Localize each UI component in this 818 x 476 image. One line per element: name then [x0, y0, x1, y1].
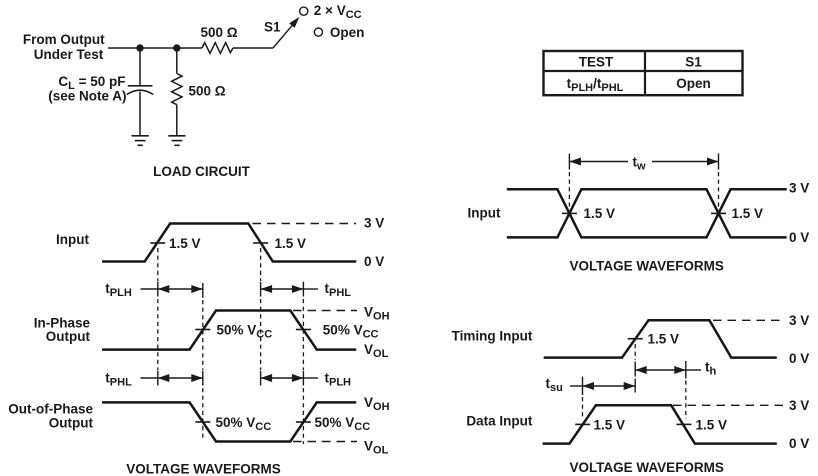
dashed vertical: in-phase rise crossing — [202, 283, 204, 298]
dashed 3V level line (timing input) — [713, 319, 783, 321]
dashed vertical: timing crossing down to tsu row — [634, 344, 636, 360]
svg-text:S1: S1 — [264, 20, 281, 35]
measurement arrow tw — [569, 161, 628, 163]
svg-text:From Output: From Output — [23, 32, 105, 47]
svg-text:0 V: 0 V — [789, 436, 809, 451]
svg-text:1.5 V: 1.5 V — [594, 418, 626, 433]
table: horizontal divider — [544, 70, 743, 72]
dashed vertical: th right bound down to data fall crossing — [685, 381, 687, 420]
dashed vertical: in-phase fall crossing — [302, 282, 304, 297]
lead line to tPHL arrows (row 2) — [141, 377, 158, 379]
tick: data input rising 1.5V crossing — [575, 423, 590, 425]
resistor R2 500 ohm (vertical): wire node B down — [176, 48, 178, 74]
junction node A — [136, 44, 143, 51]
capacitor CL curved bottom plate — [127, 90, 153, 94]
tick: input rising 1.5V crossing — [150, 242, 165, 244]
lead line from tPHL arrows — [303, 288, 318, 290]
dashed vertical: tw left bound — [568, 154, 570, 170]
resistor R1 500 ohm (series) zigzag — [202, 43, 233, 54]
svg-text:Out-of-Phase: Out-of-Phase — [8, 402, 93, 417]
svg-text:S1: S1 — [685, 54, 702, 69]
wire: resistor R2 down to ground — [176, 105, 178, 136]
switch S1 pole (diagonal arm) — [273, 23, 294, 48]
wire: from output label to node A — [108, 47, 140, 49]
svg-text:VOLTAGE WAVEFORMS: VOLTAGE WAVEFORMS — [569, 460, 724, 475]
measurement arrow tPLH (row 2) — [261, 377, 304, 379]
svg-text:3 V: 3 V — [364, 216, 384, 231]
svg-text:TEST: TEST — [579, 54, 614, 69]
dashed VOL level line (out-of-phase) — [293, 441, 357, 443]
dashed 3V level line (input) — [253, 223, 357, 225]
tick: input falling 1.5V crossing — [253, 242, 268, 244]
tick: in-phase rising 50% crossing — [195, 329, 210, 331]
lead line from th arrows — [686, 369, 701, 371]
waveform: out-of-phase output — [102, 402, 356, 441]
lead line to tsu arrows — [570, 385, 583, 387]
terminal: 2 x VCC contact circle — [300, 7, 308, 15]
waveform: input pulse line A (high-low-high) — [507, 189, 787, 237]
svg-text:1.5 V: 1.5 V — [169, 236, 201, 251]
dashed vertical: tw right bound — [718, 154, 720, 170]
svg-text:Under Test: Under Test — [34, 47, 104, 62]
svg-text:Data Input: Data Input — [466, 414, 533, 429]
svg-text:Output: Output — [46, 329, 91, 344]
dashed vertical: tsu left bound down to data rise crossing — [582, 397, 584, 419]
svg-text:VOLTAGE WAVEFORMS: VOLTAGE WAVEFORMS — [126, 462, 281, 476]
measurement arrow tPHL — [261, 288, 304, 290]
solid tick: tsu left bound — [582, 377, 584, 396]
svg-text:0 V: 0 V — [789, 351, 809, 366]
waveform: input pulse line B (low-high-low) — [507, 189, 787, 237]
measurement arrow tPHL (row 2) — [158, 377, 203, 379]
ground (below resistor R2) — [168, 136, 185, 146]
junction node B — [173, 44, 180, 51]
svg-text:(see Note A): (see Note A) — [48, 89, 126, 104]
ground (below capacitor CL) — [132, 136, 149, 146]
table: outer border — [544, 51, 743, 95]
dashed vertical: input rise crossing — [157, 248, 159, 281]
svg-text:1.5 V: 1.5 V — [648, 332, 680, 347]
svg-text:3 V: 3 V — [789, 181, 809, 196]
tick: out-of-phase rising 50% crossing — [296, 421, 311, 423]
tick: data input falling 1.5V crossing — [676, 423, 691, 425]
dashed 3V level line (data input) — [673, 404, 783, 406]
tick: in-phase falling 50% crossing — [296, 329, 311, 331]
wire: node A to node B — [140, 47, 177, 49]
svg-text:Input: Input — [56, 232, 89, 247]
svg-text:3 V: 3 V — [789, 398, 809, 413]
svg-text:1.5 V: 1.5 V — [584, 206, 616, 221]
measurement arrow tsu — [583, 385, 636, 387]
svg-text:Output: Output — [49, 416, 94, 431]
dashed vertical: input fall crossing — [260, 248, 262, 281]
wire: capacitor CL down to ground — [139, 92, 141, 136]
svg-text:LOAD CIRCUIT: LOAD CIRCUIT — [153, 164, 250, 179]
tick: right 1.5V crossing — [711, 212, 726, 214]
svg-text:Open: Open — [676, 76, 711, 91]
tick: out-of-phase falling 50% crossing — [195, 421, 210, 423]
wire: node B to resistor R1 — [177, 47, 202, 49]
waveform: data input — [543, 405, 777, 443]
wire: node A down to capacitor CL — [139, 48, 141, 85]
svg-text:0 V: 0 V — [789, 230, 809, 245]
table: vertical divider — [644, 51, 646, 95]
svg-text:Timing Input: Timing Input — [452, 329, 533, 344]
waveform: input pulse — [102, 224, 356, 262]
wire: resistor R1 to switch S1 — [233, 47, 273, 49]
lead line to tPLH arrows — [141, 288, 158, 290]
measurement arrow tPLH — [158, 288, 203, 290]
svg-text:1.5 V: 1.5 V — [696, 418, 728, 433]
tick: timing input 1.5V crossing — [628, 338, 643, 340]
tick: left 1.5V crossing — [562, 212, 577, 214]
switch S1 arrowhead — [289, 17, 299, 28]
svg-text:1.5 V: 1.5 V — [275, 236, 307, 251]
svg-text:3 V: 3 V — [789, 313, 809, 328]
svg-text:500 Ω: 500 Ω — [201, 25, 238, 40]
resistor R2 500 ohm zigzag — [172, 74, 182, 105]
measurement arrow th — [635, 369, 686, 371]
waveform: in-phase output — [102, 311, 356, 350]
lead line from tPLH arrows (row 2) — [303, 377, 318, 379]
svg-text:VOLTAGE WAVEFORMS: VOLTAGE WAVEFORMS — [569, 259, 724, 274]
dashed VOH level line (in-phase) — [293, 310, 357, 312]
svg-text:Open: Open — [330, 25, 365, 40]
svg-text:500 Ω: 500 Ω — [189, 84, 226, 99]
svg-text:1.5 V: 1.5 V — [732, 206, 764, 221]
capacitor CL top plate — [128, 85, 153, 87]
waveform: timing input — [544, 320, 777, 357]
svg-text:Input: Input — [468, 206, 501, 221]
svg-text:0 V: 0 V — [364, 254, 384, 269]
terminal: Open contact circle — [314, 28, 322, 36]
solid tick: th right bound — [685, 361, 687, 379]
